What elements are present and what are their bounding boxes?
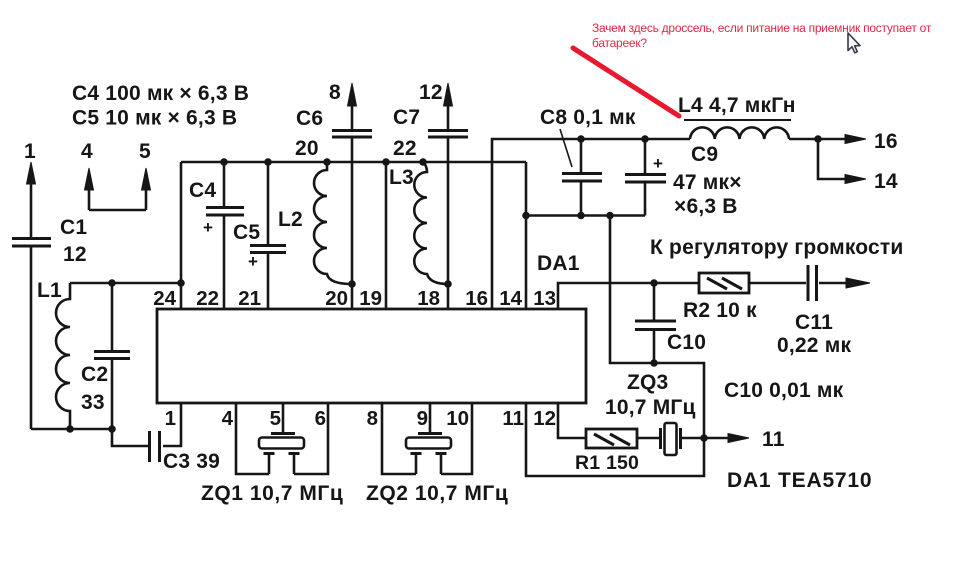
terminal arrow to volume control	[846, 278, 870, 288]
capacitor C3	[150, 431, 160, 462]
terminal arrow 1	[27, 162, 36, 238]
svg-text:+: +	[653, 154, 663, 173]
wire Vcc top bus	[181, 161, 526, 164]
svg-text:C4 100 мк × 6,3 В: C4 100 мк × 6,3 В	[72, 82, 249, 105]
svg-text:14: 14	[874, 170, 898, 193]
svg-text:R2 10 к: R2 10 к	[683, 299, 757, 322]
inductor L2	[314, 162, 352, 284]
terminal arrow 12	[444, 83, 453, 129]
svg-text:C6: C6	[296, 107, 323, 130]
svg-text:C10: C10	[667, 331, 706, 354]
svg-text:5: 5	[270, 407, 281, 430]
svg-text:L1: L1	[37, 279, 62, 302]
capacitor C1	[12, 239, 51, 430]
terminal arrow 8	[348, 83, 357, 129]
svg-text:C1: C1	[60, 216, 87, 239]
svg-text:8: 8	[367, 407, 378, 430]
svg-text:24: 24	[153, 287, 176, 310]
inductor L1	[56, 283, 70, 429]
svg-text:C4: C4	[189, 179, 216, 202]
terminal arrow 5	[142, 168, 151, 210]
ceramic filter ZQ1	[236, 403, 328, 474]
svg-text:19: 19	[359, 287, 382, 310]
svg-text:C2: C2	[81, 363, 108, 386]
wire pin 19 vertical	[385, 162, 388, 309]
wire bottom node to C3 to pin 1	[112, 403, 181, 446]
svg-text:+: +	[248, 252, 258, 271]
svg-text:6: 6	[315, 407, 326, 430]
pin number labels bottom row	[165, 407, 556, 430]
svg-text:22: 22	[196, 287, 219, 310]
svg-text:1: 1	[24, 140, 36, 163]
svg-text:DA1: DA1	[537, 252, 580, 275]
svg-text:12: 12	[63, 243, 87, 266]
svg-text:47 мк×: 47 мк×	[673, 171, 742, 194]
svg-text:16: 16	[465, 287, 488, 310]
capacitor C9 electrolytic	[625, 139, 666, 216]
terminal arrow 11	[728, 434, 749, 443]
wire after L4 to split node	[789, 138, 818, 141]
svg-text:C3 39: C3 39	[163, 450, 220, 473]
svg-text:C11: C11	[795, 311, 833, 334]
svg-text:20: 20	[325, 287, 348, 310]
wire pin 12 to R1	[558, 403, 731, 438]
ceramic filter ZQ2	[382, 403, 472, 474]
capacitor C11	[808, 265, 817, 301]
capacitor C7	[428, 131, 468, 310]
capacitor C8	[562, 139, 602, 216]
svg-text:5: 5	[139, 140, 151, 163]
svg-text:L2: L2	[278, 208, 303, 231]
svg-text:C10 0,01 мк: C10 0,01 мк	[724, 379, 844, 402]
capacitor C6	[332, 131, 372, 310]
pin number labels top row	[153, 287, 556, 310]
svg-text:L3: L3	[389, 166, 414, 189]
svg-text:ZQ3: ZQ3	[627, 371, 668, 394]
capacitor C5 electrolytic	[250, 162, 286, 309]
resistor R2	[699, 273, 749, 293]
svg-text:13: 13	[533, 287, 556, 310]
wire bottom node left	[31, 428, 112, 431]
inductor L4	[690, 127, 789, 139]
svg-text:12: 12	[419, 81, 443, 104]
svg-text:C7: C7	[393, 106, 420, 129]
svg-text:ZQ2 10,7 МГц: ZQ2 10,7 МГц	[366, 482, 508, 505]
wire C8 C9 ground return	[526, 214, 645, 217]
svg-text:L4 4,7 мкГн: L4 4,7 мкГн	[678, 94, 796, 117]
mouse cursor	[848, 33, 860, 53]
terminal arrow 16	[818, 135, 866, 144]
svg-text:C9: C9	[691, 143, 718, 166]
svg-text:18: 18	[417, 287, 440, 310]
svg-text:Зачем здесь дроссель, если пит: Зачем здесь дроссель, если питание на пр…	[592, 21, 932, 35]
crystal ZQ3	[661, 423, 681, 455]
svg-text:C5 10 мк × 6,3 В: C5 10 мк × 6,3 В	[72, 107, 237, 130]
svg-text:C8 0,1 мк: C8 0,1 мк	[540, 106, 636, 129]
svg-text:батареек?: батареек?	[592, 36, 647, 50]
svg-text:16: 16	[874, 130, 898, 153]
wire bracket joining 4 and 5	[89, 209, 146, 212]
wire pin 24 vertical	[180, 162, 183, 309]
wire pin 14 vertical	[525, 162, 528, 309]
IC DA1 TEA5710	[157, 309, 586, 403]
capacitor C10	[635, 283, 676, 363]
red annotation line	[573, 48, 679, 116]
svg-text:22: 22	[393, 137, 417, 160]
svg-text:R1 150: R1 150	[575, 452, 639, 474]
svg-text:10,7 МГц: 10,7 МГц	[605, 396, 696, 419]
svg-text:ZQ1 10,7 МГц: ZQ1 10,7 МГц	[201, 482, 343, 505]
terminal arrow 14	[818, 139, 866, 184]
svg-text:20: 20	[295, 137, 319, 160]
svg-text:14: 14	[499, 287, 522, 310]
svg-text:12: 12	[533, 407, 556, 430]
wire L1 top node to pin 24	[70, 282, 181, 285]
svg-text:11: 11	[762, 428, 785, 451]
wire pin13 output row	[558, 283, 848, 309]
svg-text:4: 4	[222, 407, 234, 430]
svg-text:33: 33	[81, 391, 105, 414]
capacitor C2	[94, 283, 130, 429]
svg-text:4: 4	[81, 140, 93, 163]
capacitor C4 electrolytic	[206, 162, 244, 309]
svg-text:10: 10	[446, 407, 469, 430]
resistor R1	[586, 429, 637, 448]
svg-text:+: +	[203, 218, 213, 237]
svg-text:1: 1	[165, 407, 176, 430]
terminal arrow 4	[85, 168, 94, 210]
svg-text:C5: C5	[233, 221, 260, 244]
inductor L3	[414, 162, 448, 284]
wire ZQ3 net: drop from C8C9 return, C10 bottom row, pin 11 loop	[526, 216, 704, 477]
svg-text:×6,3 В: ×6,3 В	[674, 195, 738, 218]
svg-text:9: 9	[417, 407, 428, 430]
svg-text:21: 21	[238, 287, 261, 310]
svg-text:К регулятору громкости: К регулятору громкости	[650, 236, 904, 259]
svg-text:11: 11	[502, 407, 524, 430]
svg-text:8: 8	[329, 81, 341, 104]
wire pin 16 vertical and top-right feed	[492, 139, 690, 309]
svg-text:DA1 TEA5710: DA1 TEA5710	[727, 469, 872, 492]
svg-text:0,22 мк: 0,22 мк	[777, 334, 851, 357]
